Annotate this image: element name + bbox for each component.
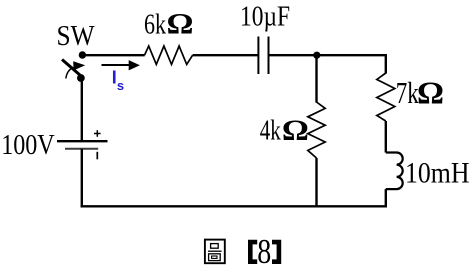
- svg-text:7k: 7k: [396, 75, 419, 110]
- label 6kOhm: [144, 8, 194, 41]
- label - (battery polarity tick): [96, 152, 98, 160]
- wire: capacitor right plate to node A: [269, 54, 317, 56]
- switch SW closing-motion arrowhead: [73, 61, 85, 70]
- caption glyph: Chinese character Tu (figure): [205, 240, 225, 264]
- node A junction dot: [313, 52, 320, 59]
- svg-text:8: 8: [257, 232, 271, 271]
- svg-text:4k: 4k: [260, 114, 281, 146]
- caption left lenticular bracket: [248, 240, 257, 264]
- wire: 7k resistor to inductor: [385, 121, 387, 153]
- svg-text:10µF: 10µF: [240, 0, 290, 32]
- battery negative plate (short): [65, 148, 98, 150]
- resistor 4k zigzag: [308, 102, 325, 158]
- wire: inductor to bottom-right corner: [385, 189, 387, 207]
- svg-text:10mH: 10mH: [405, 157, 470, 190]
- capacitor 10uF left plate: [257, 37, 259, 75]
- capacitor 10uF right plate: [268, 37, 270, 75]
- wire: node A down to 4k resistor: [315, 55, 317, 102]
- wire: top-right corner down to 7k resistor: [385, 54, 387, 74]
- switch SW closing-motion arc: [66, 67, 73, 78]
- label + (battery polarity): [94, 130, 101, 137]
- wire: switch top node to 6k resistor: [82, 54, 144, 56]
- svg-text:Ω: Ω: [417, 74, 444, 110]
- label 4kOhm: [260, 114, 309, 147]
- bottom wire: [81, 205, 387, 207]
- resistor 7k zigzag: [377, 73, 395, 121]
- wire: 6k resistor to capacitor left plate: [193, 54, 259, 56]
- switch SW bottom contact node: [77, 74, 85, 82]
- svg-text:6k: 6k: [144, 8, 166, 40]
- svg-text:Ω: Ω: [282, 114, 309, 147]
- caption right lenticular bracket: [272, 240, 281, 264]
- svg-text:Ω: Ω: [167, 8, 194, 41]
- wire: switch bottom node to battery positive plate: [81, 78, 83, 141]
- switch SW top contact node: [79, 51, 86, 58]
- current arrow Is: [102, 60, 140, 70]
- inductor 10mH coil: [386, 153, 403, 190]
- resistor 6k zigzag: [145, 46, 193, 64]
- label 7kOhm: [396, 74, 444, 110]
- svg-text:100V: 100V: [1, 130, 55, 161]
- wire: battery negative plate to bottom wire: [81, 149, 83, 208]
- wire: node A to top-right corner: [317, 54, 388, 56]
- battery positive plate (long): [57, 140, 108, 142]
- switch SW blade: [62, 60, 81, 76]
- wire: 4k resistor to bottom wire: [315, 158, 317, 207]
- svg-text:SW: SW: [57, 20, 96, 52]
